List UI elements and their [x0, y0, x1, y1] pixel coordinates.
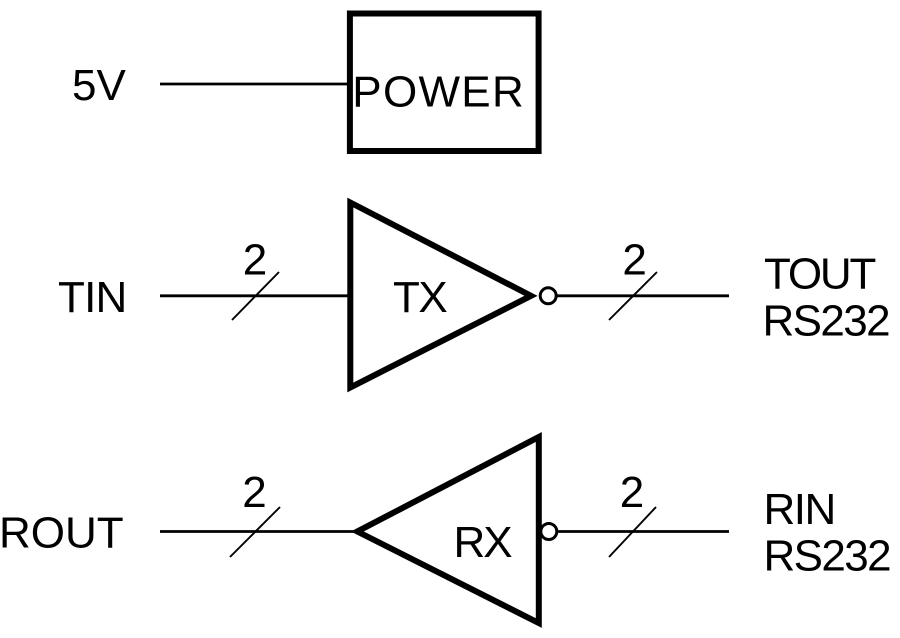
block POWER box — [350, 14, 539, 152]
inverter bubble TX output — [540, 288, 556, 304]
inverter bubble RX input — [541, 524, 557, 540]
svg-text:ROUT: ROUT — [0, 509, 124, 558]
svg-text:RIN: RIN — [764, 485, 835, 534]
svg-text:RS232: RS232 — [764, 531, 891, 580]
buffer RX — [357, 437, 539, 623]
svg-text:TIN: TIN — [58, 273, 126, 322]
svg-text:2: 2 — [622, 236, 646, 285]
svg-text:RX: RX — [454, 518, 513, 567]
wire ROUT to RX — [160, 530, 358, 533]
svg-text:2: 2 — [243, 236, 267, 285]
wire 5V to POWER — [160, 83, 350, 86]
svg-text:TOUT: TOUT — [764, 249, 875, 298]
buffer TX — [350, 203, 531, 388]
svg-text:5V: 5V — [72, 61, 126, 110]
wire TIN to TX — [160, 294, 353, 297]
wire TX bubble to TOUT — [556, 294, 729, 297]
bus slash ROUT — [230, 507, 280, 557]
svg-text:2: 2 — [620, 468, 644, 517]
bus slash TOUT — [609, 272, 657, 320]
wire RX bubble to RIN — [556, 530, 729, 533]
bus slash TIN — [232, 272, 279, 320]
svg-text:POWER: POWER — [352, 68, 525, 117]
svg-text:2: 2 — [242, 468, 266, 517]
svg-text:TX: TX — [393, 273, 447, 322]
svg-text:RS232: RS232 — [763, 296, 890, 345]
bus slash RIN — [609, 507, 656, 557]
